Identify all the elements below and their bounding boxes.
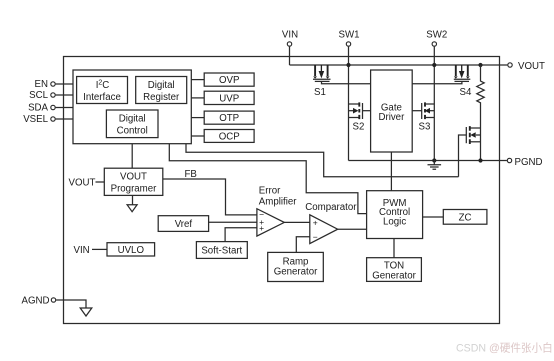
transistor Qsense source stub [471, 141, 481, 143]
pin SCL terminal circle [51, 93, 55, 97]
transistor S3 channel bars [424, 102, 426, 119]
wire VIN pin to top rail [289, 47, 291, 65]
pin SW2 terminal circle [432, 42, 436, 46]
wire SDA to digital block [56, 107, 73, 109]
pin SW1 terminal circle [346, 42, 350, 46]
resistor VOUT sense divider [477, 65, 484, 161]
svg-text:Interface: Interface [83, 92, 121, 103]
svg-text:CSDN @硬件张小白: CSDN @硬件张小白 [456, 342, 553, 355]
svg-text:VOUT: VOUT [69, 178, 96, 189]
wire S2 gate to Gate Driver [363, 110, 371, 112]
transistor S1 channel line [313, 78, 331, 80]
Vref box [158, 216, 208, 232]
digital block container box [73, 70, 191, 144]
svg-text:−: − [313, 232, 318, 242]
wire digital block to OVP [191, 79, 204, 81]
PWM Control Logic box [367, 191, 423, 239]
ground AGND arrow symbol [80, 308, 92, 316]
wire Gate Driver to PWM logic [390, 152, 392, 191]
wire VOUT- pin to VOUT Programer [96, 181, 105, 183]
svg-text:VOUT: VOUT [120, 171, 147, 182]
svg-text:I2C: I2C [96, 80, 110, 92]
svg-text:Amplifier: Amplifier [259, 196, 297, 207]
transistor S2 channel bars [358, 102, 360, 119]
svg-text:AGND: AGND [22, 295, 50, 306]
svg-text:S2: S2 [353, 122, 365, 133]
svg-text:SW2: SW2 [426, 30, 447, 41]
transistor S1 gate bar [315, 80, 330, 82]
svg-text:VIN: VIN [74, 245, 90, 256]
svg-text:Comparator: Comparator [305, 202, 357, 213]
svg-text:Control: Control [117, 126, 148, 137]
wire digital block to UVP [191, 97, 204, 99]
wire VOUT Programer output arrow stem [132, 195, 134, 204]
svg-text:VOUT: VOUT [518, 61, 545, 72]
transistor S3 drain stub [426, 103, 435, 105]
wire digital block to sense-FET gate (net A) [186, 144, 459, 177]
wire S1 gate to Gate Driver [322, 81, 371, 83]
svg-text:Programer: Programer [111, 183, 158, 194]
svg-text:Generator: Generator [372, 270, 416, 281]
transistor S2 body arrow [349, 110, 354, 112]
node SW2 junction dot on rail [432, 63, 436, 67]
wire S4 gate to Gate Driver [412, 81, 462, 83]
wire digital block to OTP [191, 117, 204, 119]
svg-text:Driver: Driver [378, 112, 405, 123]
transistor S1 left contact bar [314, 65, 316, 76]
TON Generator box [367, 258, 422, 282]
svg-text:SW1: SW1 [339, 30, 360, 41]
svg-text:Logic: Logic [383, 217, 406, 228]
Gate Driver box [371, 70, 413, 152]
svg-text:+: + [313, 218, 318, 228]
wire AGND into chip [56, 300, 86, 308]
svg-text:SDA: SDA [28, 103, 48, 114]
transistor S4 body arrow [461, 65, 463, 72]
wire digital block to VOUT Programer [131, 144, 133, 169]
Ramp Generator box [268, 252, 324, 281]
transistor S2 drain stub [349, 103, 359, 105]
svg-text:VIN: VIN [282, 30, 298, 41]
transistor S1 body arrow [320, 65, 322, 72]
pin VIN terminal circle [287, 42, 291, 46]
pin SDA terminal circle [51, 105, 55, 109]
wire top rail VIN to VOUT [290, 64, 508, 66]
wire SW1 pin down through power stage to ground bus [348, 47, 350, 161]
transistor S3 body arrow [430, 110, 435, 112]
node ground-bus resistor-leg junction dot [478, 158, 482, 162]
pin AGND terminal circle [51, 298, 55, 302]
arrow VOUT Programer open arrowhead [127, 205, 137, 212]
svg-text:Register: Register [143, 92, 180, 103]
wire VSEL to digital block [56, 118, 73, 120]
wire VIN label to UVLO [92, 248, 107, 250]
transistor Qsense drain stub [471, 127, 481, 129]
transistor S3 source stub [426, 117, 435, 119]
node ground-bus SW2 junction dot [432, 158, 436, 162]
transistor Qsense gate bar [465, 127, 467, 143]
wire digital block to OCP [191, 135, 204, 137]
Digital Register box [136, 77, 187, 104]
transistor S2 source stub [349, 117, 359, 119]
svg-text:S3: S3 [419, 122, 431, 133]
svg-text:SCL: SCL [29, 90, 48, 101]
node SW1 junction dot on rail [346, 63, 350, 67]
wire Vref to error amplifier [209, 221, 257, 223]
svg-text:PGND: PGND [515, 157, 543, 168]
wire PWM logic to ZC [423, 216, 444, 218]
op-amp error amplifier triangle [257, 209, 284, 236]
svg-text:Vref: Vref [175, 219, 193, 230]
pin PGND terminal circle [507, 158, 511, 162]
pin EN terminal circle [51, 82, 55, 86]
svg-text:Digital: Digital [148, 80, 175, 91]
svg-text:ZC: ZC [459, 212, 472, 223]
svg-text:S1: S1 [314, 87, 326, 98]
UVP box [204, 91, 254, 104]
UVLO box [107, 243, 155, 256]
transistor Qsense channel bars [469, 126, 471, 144]
wire comparator output to PWM logic [338, 228, 367, 230]
svg-text:OVP: OVP [219, 75, 239, 86]
wire PWM logic to TON Generator [393, 239, 395, 258]
wire S3 gate to Gate Driver [412, 110, 422, 112]
ground earth symbol under power stage [428, 161, 442, 170]
comparator triangle [310, 215, 338, 244]
VOUT Programer box [104, 168, 163, 195]
pin VSEL terminal circle [51, 117, 55, 121]
svg-text:S4: S4 [460, 87, 472, 98]
svg-text:UVP: UVP [219, 93, 239, 104]
transistor S2 gate bar [362, 103, 364, 119]
wire EN to digital block [56, 83, 73, 85]
svg-text:OCP: OCP [219, 131, 240, 142]
wire SW2 pin down to ground bus [433, 47, 435, 161]
Digital Control box [106, 110, 158, 138]
ZC box [443, 210, 487, 225]
pin VOUT terminal circle [508, 63, 512, 67]
svg-text:Error: Error [259, 185, 281, 196]
wire Qsense gate down to control line [459, 135, 467, 177]
wire FB from VOUT Programer to error amplifier [163, 179, 257, 215]
transistor Qsense body arrow [476, 134, 481, 136]
OCP box [204, 130, 254, 143]
transistor S1 right contact bar [327, 65, 329, 76]
svg-text:Generator: Generator [274, 267, 318, 278]
transistor S3 gate bar [421, 103, 423, 119]
transistor S4 left contact bar [455, 65, 457, 76]
transistor S4 channel line [454, 78, 471, 80]
svg-text:Digital: Digital [119, 114, 146, 125]
svg-text:FB: FB [185, 169, 197, 180]
I2C Interface box U-I2C [77, 77, 128, 104]
node VOUT/resistor junction dot on rail [478, 63, 482, 67]
OVP box [204, 73, 254, 86]
transistor S4 gate bar [455, 80, 470, 82]
svg-text:UVLO: UVLO [118, 245, 145, 256]
wire error amplifier output to comparator [284, 221, 310, 223]
wire Soft-Start to error amplifier [225, 228, 257, 242]
wire Ramp Generator to comparator inverting input [296, 237, 310, 253]
wire PGND ground bus [349, 160, 507, 162]
IC outer boundary box [64, 57, 500, 324]
svg-text:EN: EN [35, 79, 48, 90]
svg-text:OTP: OTP [219, 113, 239, 124]
svg-text:+: + [259, 223, 264, 233]
transistor S4 right contact bar [467, 65, 469, 76]
OTP box [204, 111, 254, 124]
wire digital block to PWM logic (net B) [169, 144, 366, 214]
Soft-Start box [196, 242, 247, 259]
wire SCL to digital block [56, 94, 73, 96]
svg-text:Soft-Start: Soft-Start [201, 245, 242, 256]
svg-text:VSEL: VSEL [23, 114, 48, 125]
